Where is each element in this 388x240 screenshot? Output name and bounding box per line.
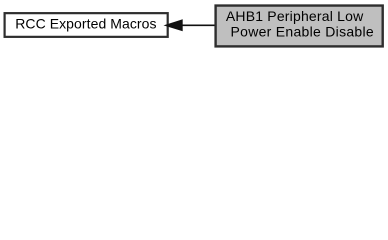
- svg-text:AHB1 Peripheral Low: AHB1 Peripheral Low: [226, 8, 364, 24]
- svg-text:Power Enable Disable: Power Enable Disable: [231, 23, 374, 39]
- svg-text:RCC Exported Macros: RCC Exported Macros: [15, 16, 156, 32]
